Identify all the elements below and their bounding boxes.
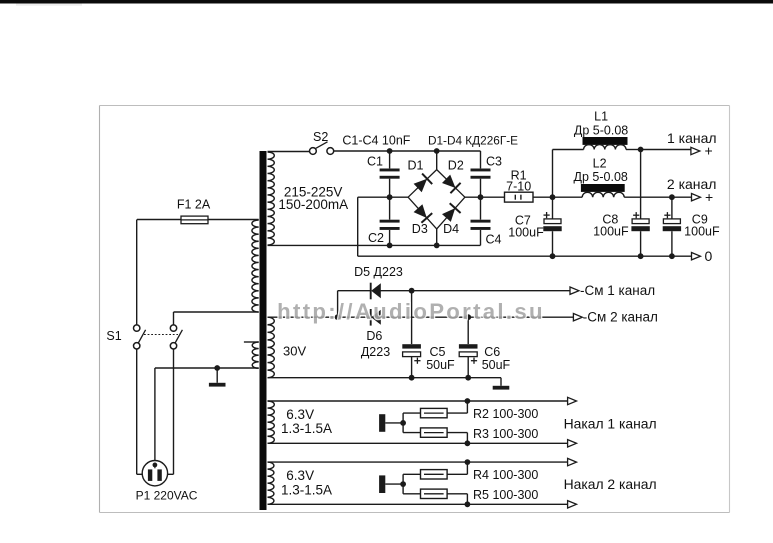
ground chassis symbol 1 [216, 368, 218, 383]
wire R4 row [403, 473, 420, 475]
output arrow heater1 top [568, 397, 577, 404]
top border shadow [16, 4, 82, 6]
wire C9 column [671, 197, 673, 219]
wire humdinger1 tap [385, 422, 403, 424]
wire C3-C4 column [480, 151, 482, 168]
capacitor C6 [459, 344, 478, 348]
wire heater2 top [268, 461, 568, 463]
switch S1 pole 1 lever [138, 330, 145, 343]
wire bridge top stub [436, 151, 438, 170]
switch S1 pole 2 lever [175, 330, 182, 343]
ground chassis symbol 2 [500, 378, 502, 386]
wire humdinger2 tap [385, 483, 403, 485]
resistor R5 [421, 489, 448, 498]
junction heater1 bottom [465, 440, 471, 446]
junction C2 bottom [387, 243, 393, 249]
diode D1 [414, 179, 428, 192]
svg-text:1.3-1.5A: 1.3-1.5A [281, 482, 332, 497]
wire D6 to output [381, 316, 574, 318]
choke L2 winding [553, 196, 583, 198]
transformer heater winding 6.3V no.2 [268, 462, 274, 504]
junction heater1 top [465, 398, 471, 404]
svg-text:http://AudioPortal.su: http://AudioPortal.su [277, 299, 545, 324]
plug P1 earth pin [153, 463, 158, 468]
wire L2 out to channel2 [672, 196, 692, 198]
wire fuse rail [137, 219, 181, 221]
wire C2 column [389, 197, 391, 219]
junction humdinger2 [400, 481, 406, 487]
resistor R1 [505, 192, 534, 202]
output arrow -Cm 1 [570, 287, 579, 294]
wire C5 column [411, 291, 413, 344]
junction bridge top [434, 148, 440, 154]
junction C6 bottom [465, 375, 471, 381]
capacitor C9 [663, 219, 680, 224]
svg-text:30V: 30V [283, 343, 306, 358]
wire R2-R3 left link [402, 413, 404, 433]
wire S1 left pole to plug [136, 349, 138, 474]
wire bridge right output [465, 196, 505, 198]
svg-text:Др 5-0.08: Др 5-0.08 [574, 124, 628, 138]
transformer primary winding [252, 220, 259, 312]
svg-text:7-10: 7-10 [506, 180, 531, 194]
svg-text:100uF: 100uF [593, 225, 629, 239]
svg-text:D1: D1 [408, 159, 424, 173]
wire heater1 bottom [268, 442, 568, 444]
junction L2 out [669, 194, 675, 200]
resistor R4 [421, 470, 448, 479]
capacitor C8 [632, 219, 649, 224]
svg-text:D4: D4 [443, 222, 459, 236]
svg-text:100uF: 100uF [684, 225, 720, 239]
svg-text:S2: S2 [313, 130, 328, 144]
plus mark C5 [414, 360, 420, 362]
diode D4 [442, 208, 455, 222]
transformer shield winding [252, 342, 259, 368]
humdinger bar 1 [379, 414, 385, 432]
switch S1 pole 1 contacts [134, 325, 140, 331]
junction bridge bottom [434, 243, 440, 249]
wire R5 row [403, 493, 420, 495]
wire bottom AC rail [268, 244, 481, 246]
wire S1 right pole to plug [173, 349, 175, 474]
svg-text:6.3V: 6.3V [286, 407, 314, 422]
svg-text:D3: D3 [412, 222, 428, 236]
plus mark C7 [544, 214, 550, 216]
output arrow channel 1 [691, 147, 700, 154]
plug P1 prongs [148, 469, 152, 481]
choke L1 core [583, 137, 628, 145]
svg-text:D1-D4 КД226Г-Е: D1-D4 КД226Г-Е [428, 134, 518, 148]
svg-text:C3: C3 [486, 155, 502, 169]
svg-text:R2 100-300: R2 100-300 [473, 407, 538, 421]
top border bar [0, 0, 773, 4]
wire shield to plug earth pin [154, 368, 156, 467]
resistor R2 [421, 408, 448, 417]
choke L1 winding [553, 149, 584, 151]
wire L1 out to channel1 [641, 149, 691, 151]
plug P1 body [142, 461, 167, 486]
svg-text:D2: D2 [448, 159, 464, 173]
wire bridge diamond [408, 170, 437, 198]
svg-text:Д223: Д223 [361, 345, 390, 359]
humdinger bar 2 [379, 475, 385, 493]
svg-text:C2: C2 [368, 231, 384, 245]
plus mark C9 [664, 214, 670, 216]
output arrow 0 [692, 253, 701, 260]
svg-text:Накал 1 канал: Накал 1 канал [564, 415, 657, 431]
junction C5 bottom [409, 375, 415, 381]
wire top AC rail [334, 150, 481, 152]
wire heater1 top [268, 400, 568, 402]
junction humdinger1 [400, 420, 406, 426]
capacitor C1 [380, 169, 400, 172]
diode D5 [370, 283, 372, 300]
transformer HV secondary winding 215-225V [268, 152, 275, 245]
svg-text:50uF: 50uF [482, 358, 511, 372]
switch S1 mechanical link [144, 334, 178, 336]
wire 30V bottom rail [268, 377, 502, 379]
transformer heater winding 6.3V no.1 [268, 401, 275, 443]
wire bridge bottom stub [436, 229, 438, 246]
output arrow channel 2 [692, 194, 701, 201]
wire R4-R5 left link [402, 474, 404, 494]
svg-text:P1 220VAC: P1 220VAC [136, 488, 198, 502]
diode D2 [442, 175, 456, 188]
diode D3 [414, 204, 427, 218]
junction C6 top [465, 314, 471, 320]
wire minus rail [358, 196, 390, 198]
svg-text:1.3-1.5A: 1.3-1.5A [281, 421, 332, 436]
output arrow -Cm 2 [573, 314, 582, 321]
svg-text:6.3V: 6.3V [286, 468, 314, 483]
capacitor C3 [471, 169, 491, 172]
choke L2 core [581, 184, 625, 192]
svg-text:F1 2A: F1 2A [177, 198, 211, 212]
svg-text:-См 1 канал: -См 1 канал [580, 283, 655, 298]
wire C7 column [552, 197, 554, 219]
switch S2 lever [315, 142, 327, 149]
wire D5 branch up [337, 291, 339, 318]
svg-text:R4 100-300: R4 100-300 [473, 468, 538, 482]
wire heater2 bottom [268, 503, 568, 505]
svg-text:R5 100-300: R5 100-300 [473, 488, 538, 502]
svg-text:150-200mA: 150-200mA [278, 197, 348, 212]
resistor R3 [421, 428, 448, 437]
junction node P [550, 194, 556, 200]
capacitor C4 [471, 220, 491, 223]
junction 30V tap [335, 314, 341, 320]
svg-text:+: + [705, 143, 713, 159]
svg-text:C1: C1 [367, 155, 383, 169]
svg-text:R3 100-300: R3 100-300 [473, 427, 538, 441]
junction top rail C1 [387, 148, 393, 154]
junction C3-C4 mid [478, 194, 484, 200]
svg-text:S1: S1 [106, 329, 121, 343]
capacitor C2 [380, 220, 400, 223]
svg-text:C6: C6 [484, 345, 500, 359]
svg-text:100uF: 100uF [508, 226, 544, 240]
svg-text:Др 5-0.08: Др 5-0.08 [574, 170, 628, 184]
wire 30V top to junction [268, 316, 371, 318]
wire C8 column [640, 150, 642, 219]
svg-text:50uF: 50uF [426, 358, 455, 372]
output arrow heater1 bottom [568, 440, 577, 447]
plus mark C6 [471, 360, 477, 362]
transformer T1 core [260, 151, 267, 510]
junction C5 top [409, 288, 415, 294]
svg-text:D5 Д223: D5 Д223 [354, 265, 403, 279]
transformer bias secondary winding 30V [268, 317, 275, 377]
fuse F1 [181, 216, 208, 224]
wire HV winding to S2 [268, 151, 310, 153]
junction shield ground tap [214, 365, 220, 371]
switch S1 pole 2 contacts [170, 325, 176, 331]
diode D6 [370, 309, 372, 326]
output arrow heater2 bottom [568, 501, 577, 508]
svg-text:Накал 2 канал: Накал 2 канал [564, 476, 657, 492]
svg-text:C4: C4 [486, 233, 502, 247]
capacitor C5 [402, 344, 421, 348]
svg-text:+: + [705, 189, 713, 205]
plus mark C8 [633, 214, 639, 216]
wire node P up to L1 [552, 150, 554, 198]
junction C1-C2 mid [387, 194, 393, 200]
svg-text:D6: D6 [366, 329, 382, 343]
wire R2 row [403, 412, 420, 414]
svg-text:L1: L1 [594, 110, 608, 124]
output arrow heater2 top [568, 458, 577, 465]
junction L1 out [638, 147, 644, 153]
wire C6 column [467, 317, 469, 344]
junction heater2 top [465, 459, 471, 465]
wire R1 to node P [533, 196, 553, 198]
junction C9 bottom [669, 253, 675, 259]
wire bridge left output [390, 196, 409, 198]
capacitor C7 [544, 219, 561, 224]
svg-text:C5: C5 [430, 345, 446, 359]
wire R3 row [403, 432, 420, 434]
wire fuse to S1 left pole [136, 220, 138, 325]
wire S1 right pole to primary top [173, 312, 175, 325]
junction C8 bottom [638, 253, 644, 259]
wire shield winding open end [244, 341, 259, 343]
junction heater2 bottom [465, 501, 471, 507]
svg-text:-См 2 канал: -См 2 канал [583, 310, 658, 325]
svg-text:0: 0 [705, 248, 713, 264]
wire C1 column [389, 151, 391, 168]
wire D5 to output [381, 290, 571, 292]
switch S2 contacts [310, 148, 317, 155]
junction C7 bottom [550, 253, 556, 259]
schematic frame [100, 105, 730, 107]
svg-text:L2: L2 [593, 156, 607, 170]
svg-text:C1-C4 10nF: C1-C4 10nF [342, 134, 410, 148]
